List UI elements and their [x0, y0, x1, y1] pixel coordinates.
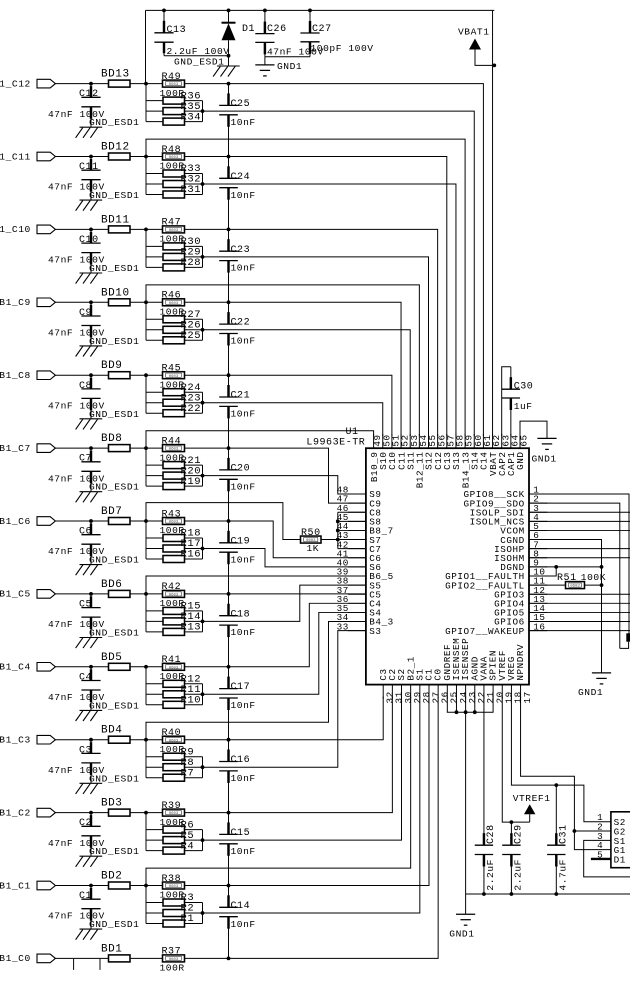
pin 1 GPIO8__SCK (right)	[464, 485, 548, 501]
svg-text:0603: 0603	[169, 156, 179, 160]
svg-text:C10: C10	[79, 235, 99, 246]
pin 22 AGND (bottom)	[469, 656, 487, 703]
wire S6 net (block6 bank to left pin40)	[203, 549, 366, 567]
svg-text:C21: C21	[231, 391, 251, 402]
svg-text:B1_C3: B1_C3	[0, 735, 31, 746]
pin 47 C9 (left)	[337, 494, 382, 510]
wire bank output vertical (block 10)	[201, 246, 205, 267]
wire bead to resistor R46	[130, 300, 163, 304]
wire B1_C7 input	[56, 447, 109, 449]
wire bead to resistor R37	[130, 957, 163, 959]
resistor R8	[146, 764, 203, 771]
wire bank output vertical (block 7)	[201, 465, 205, 486]
wire bead to resistor R41	[130, 665, 163, 669]
wire B12_11 net (block9 junction to pin54)	[146, 285, 419, 436]
wire S3 net (block3 bank to left pin33)	[203, 631, 366, 768]
pin 51 C10 (top)	[387, 434, 401, 470]
pin 15 GPIO6 (right)	[494, 612, 547, 628]
svg-text:R42: R42	[162, 582, 182, 593]
svg-text:BD5: BD5	[101, 652, 122, 664]
wire GPIO8__SCK net	[529, 494, 629, 637]
pin 23 ISENSEP (bottom)	[460, 638, 478, 704]
ground GND_ESD1 (block 5)	[76, 628, 140, 649]
wire C13/D1 to ESD ground	[164, 54, 230, 58]
pin 63 CAP2 (top)	[497, 434, 511, 476]
svg-text:1K: 1K	[307, 543, 320, 554]
svg-text:GND: GND	[515, 452, 526, 470]
svg-text:1uF: 1uF	[514, 401, 533, 412]
svg-text:C25: C25	[231, 99, 251, 110]
resistor R22	[146, 410, 203, 417]
svg-text:100pF 100V: 100pF 100V	[311, 43, 374, 54]
svg-text:R46: R46	[162, 291, 182, 302]
ferrite bead BD11	[101, 214, 130, 233]
capacitor C8 47nF	[48, 373, 105, 418]
pin 9 DGND (right)	[500, 557, 547, 573]
svg-text:R48: R48	[162, 145, 182, 156]
wire S13 net (block11 bank to pin58)	[203, 184, 456, 436]
capacitor C30 1uF (CAP1-CAP2)	[502, 367, 534, 436]
svg-text:VBAT1: VBAT1	[458, 27, 490, 38]
wire bank feed vertical x=146 (block 8)	[145, 375, 147, 413]
capacitor C26 47nF	[255, 10, 323, 57]
svg-text:GND_ESD1: GND_ESD1	[89, 409, 139, 420]
svg-text:R37: R37	[162, 947, 182, 958]
wire bank output vertical (block 1)	[201, 903, 205, 924]
svg-text:BD4: BD4	[101, 725, 122, 737]
power flag VTREF1	[513, 793, 551, 822]
resistor R21	[146, 462, 203, 469]
wire bank feed vertical x=146 (block 7)	[145, 448, 147, 486]
svg-text:C29: C29	[514, 824, 525, 844]
pin 42 C7 (left)	[337, 539, 382, 555]
svg-text:33: 33	[337, 621, 349, 632]
svg-text:C30: C30	[514, 381, 534, 392]
svg-text:B1_C2: B1_C2	[0, 807, 31, 818]
svg-text:NPNDRV: NPNDRV	[515, 644, 526, 681]
svg-text:10nF: 10nF	[231, 263, 256, 274]
pin 12 GPIO3 (right)	[494, 585, 547, 601]
resistor R38 100R	[160, 874, 185, 901]
wire GPIO3 net	[529, 593, 630, 595]
svg-text:C11: C11	[79, 162, 99, 173]
svg-text:10nF: 10nF	[231, 336, 256, 347]
capacitor C19 10nF (between C6 and C5 nets)	[219, 521, 256, 594]
svg-text:C15: C15	[231, 828, 251, 839]
svg-text:C3: C3	[79, 745, 92, 756]
wire NPNDRV net to FET gates	[521, 697, 611, 850]
resistor R20	[146, 472, 203, 479]
capacitor C13 2.2uF	[154, 10, 229, 57]
ground GND1 (pin 65)	[532, 438, 557, 464]
resistor R43 100R	[160, 509, 185, 536]
resistor R46 100R	[160, 291, 185, 318]
wire bank feed vertical x=146 (block 10)	[145, 229, 147, 267]
resistor R40 100R	[160, 728, 185, 755]
svg-text:C19: C19	[231, 536, 251, 547]
svg-text:B1_C4: B1_C4	[0, 662, 31, 673]
resistor R39 100R	[160, 801, 185, 828]
svg-text:GND_ESD1: GND_ESD1	[89, 773, 139, 784]
resistor R7	[146, 774, 203, 781]
svg-text:GND_ESD1: GND_ESD1	[89, 555, 139, 566]
resistor R42 100R	[160, 582, 185, 609]
wire S1 net (block1 bank to bottom pin28)	[203, 697, 420, 913]
pin 50 S10 (top)	[378, 434, 392, 470]
pin 40 S6 (left)	[337, 557, 382, 573]
svg-text:17: 17	[522, 691, 533, 703]
resistor R51 100K	[557, 572, 606, 589]
wire D1 drain stub	[591, 858, 611, 860]
connector B1_C3	[0, 735, 55, 746]
svg-text:R43: R43	[162, 509, 182, 520]
ground GND_ESD1 (block 1)	[76, 919, 140, 940]
ground GND_ESD1 (block 6)	[76, 555, 140, 576]
svg-text:C13: C13	[167, 25, 187, 36]
svg-text:R47: R47	[162, 218, 182, 229]
wire B1_C8 input	[56, 374, 109, 376]
ferrite bead BD6	[101, 579, 130, 598]
pin 20 SPIEN (bottom)	[488, 650, 506, 704]
svg-text:B1_C10: B1_C10	[0, 224, 31, 235]
pin 14 GPIO5 (right)	[494, 603, 547, 619]
pin 54 B12_11 (top)	[415, 434, 429, 488]
svg-text:BD10: BD10	[101, 287, 130, 299]
wire ground rail (bottom)	[466, 893, 630, 895]
wire bank output vertical (block 3)	[201, 757, 205, 778]
svg-text:R28: R28	[181, 257, 202, 269]
ferrite bead BD8	[101, 433, 130, 452]
wire R51 to CGND vertical	[585, 583, 604, 587]
svg-text:4.7uF: 4.7uF	[558, 859, 569, 891]
svg-text:C12: C12	[79, 89, 99, 100]
pin 18 VREG (bottom)	[506, 656, 524, 703]
resistor R25	[146, 337, 203, 344]
resistor R41 100R	[160, 655, 185, 682]
capacitor C20 10nF (between C7 and C6 nets)	[219, 448, 256, 521]
svg-text:B1_C7: B1_C7	[0, 443, 31, 454]
ground GND_ESD1 (top)	[174, 56, 240, 77]
pin 60 S14 (top)	[469, 434, 483, 470]
svg-text:U1: U1	[346, 427, 359, 438]
svg-text:0603: 0603	[169, 666, 179, 670]
labels bank resistors block 11	[181, 163, 202, 196]
capacitor C23 10nF (between C10 and C9 nets)	[219, 229, 256, 302]
svg-text:R1: R1	[181, 913, 195, 925]
resistor R48 100R	[160, 145, 185, 172]
svg-text:10nF: 10nF	[231, 554, 256, 565]
svg-text:S3: S3	[369, 626, 381, 637]
svg-text:10nF: 10nF	[231, 773, 256, 784]
wire R50 feed from block6 junction	[146, 503, 301, 540]
svg-text:C7: C7	[79, 454, 92, 465]
svg-text:C22: C22	[231, 318, 251, 329]
wire bank output vertical (block 4)	[201, 684, 205, 705]
svg-text:10nF: 10nF	[231, 409, 256, 420]
svg-text:R49: R49	[162, 72, 182, 83]
pin 21 VANA (bottom)	[479, 656, 497, 703]
wire bank feed vertical x=146 (block 3)	[145, 740, 147, 778]
labels bank resistors block 7	[181, 455, 202, 488]
wire bank output vertical (block 6)	[201, 538, 205, 559]
wire ISENSEP/AGND down to ground rail	[465, 712, 467, 894]
svg-text:0603: 0603	[169, 375, 179, 379]
pin 35 S4 (left)	[337, 603, 382, 619]
resistor R18	[146, 535, 203, 542]
svg-text:BD8: BD8	[101, 433, 122, 445]
pin 38 S5 (left)	[337, 576, 382, 592]
wire B6_5 net (block5 junction to left pin39)	[146, 576, 366, 594]
pin 31 C2 (bottom)	[387, 668, 405, 703]
connector B1_C0	[0, 953, 55, 964]
svg-text:GND1: GND1	[277, 61, 302, 72]
pin 29 B2_1 (bottom)	[405, 656, 423, 703]
resistor R35	[146, 108, 203, 115]
svg-text:C9: C9	[79, 308, 92, 319]
svg-text:0603: 0603	[169, 448, 179, 452]
wire bead to resistor R39	[130, 811, 163, 815]
resistor R3	[146, 899, 203, 906]
svg-text:BD12: BD12	[101, 142, 130, 154]
wire S1 source route	[584, 840, 630, 877]
svg-text:R10: R10	[181, 695, 202, 707]
ferrite bead BD10	[101, 287, 130, 306]
capacitor C11 47nF	[48, 155, 105, 201]
wire bank output vertical (block 5)	[201, 611, 205, 632]
svg-text:BD9: BD9	[101, 360, 122, 372]
pin 8 ISOHM (right)	[494, 548, 547, 564]
pin 59 B14_13 (top)	[460, 434, 474, 488]
svg-text:0603: 0603	[169, 229, 179, 233]
svg-text:C28: C28	[486, 824, 497, 844]
pin 5 VCOM (right)	[500, 521, 547, 537]
svg-text:GND_ESD1: GND_ESD1	[89, 700, 139, 711]
svg-text:2.2uF: 2.2uF	[513, 859, 524, 891]
svg-text:10nF: 10nF	[231, 919, 256, 930]
wire B10_9 net (block7 junction to pin49)	[146, 431, 374, 448]
ferrite bead BD12	[101, 142, 130, 161]
wire GPIO2__FAULTL to R51	[529, 584, 566, 586]
svg-text:0603: 0603	[570, 585, 580, 589]
wire bank output vertical (block 2)	[201, 830, 205, 851]
ferrite bead BD13	[101, 69, 130, 88]
resistor R36	[146, 97, 203, 104]
svg-text:BD2: BD2	[101, 871, 122, 883]
pin 37 C5 (left)	[337, 585, 382, 601]
svg-text:R13: R13	[181, 622, 202, 634]
ferrite bead BD9	[101, 360, 130, 379]
resistor R6	[146, 826, 203, 833]
pin 62 VBAT (top)	[488, 434, 502, 476]
resistor R31	[146, 191, 203, 198]
capacitor C21 10nF (between C8 and C7 nets)	[219, 375, 256, 448]
wire C10 net (block8 to pin51)	[185, 373, 392, 436]
wire bank feed vertical x=146 (block 9)	[145, 302, 147, 340]
pin 28 S1 (bottom)	[414, 668, 432, 703]
resistor R27	[146, 316, 203, 323]
svg-text:0603: 0603	[169, 594, 179, 598]
connector B1_C2	[0, 807, 55, 818]
connector B1_C5	[0, 589, 55, 600]
connector B1_C12	[0, 78, 55, 89]
svg-text:0603: 0603	[169, 958, 179, 962]
svg-text:B1_C12: B1_C12	[0, 78, 31, 89]
pin 4 ISOLM_NCS (right)	[470, 512, 548, 528]
resistor R30	[146, 243, 203, 250]
wire VBAT top rail	[146, 9, 495, 84]
pin 25 GNDREF (bottom)	[442, 644, 460, 704]
pin 58 S13 (top)	[451, 434, 465, 470]
svg-text:GND_ESD1: GND_ESD1	[89, 336, 139, 347]
wire CGND net to GND1	[529, 540, 602, 673]
resistor R9	[146, 753, 203, 760]
svg-text:C8: C8	[79, 381, 92, 392]
wire C26/C27 bottom	[265, 56, 310, 58]
resistor R15	[146, 607, 203, 614]
diode D1	[222, 10, 256, 55]
wire B4_3 net (block3 junction to left pin34)	[146, 622, 366, 740]
stubs on B1_C0 wire	[74, 959, 100, 970]
wire B1_C2 input	[56, 812, 109, 814]
svg-text:10nF: 10nF	[231, 190, 256, 201]
wire bead to resistor R44	[130, 446, 163, 450]
wire bead to resistor R40	[130, 738, 163, 742]
svg-text:GND_ESD1: GND_ESD1	[89, 919, 139, 930]
wire B1_C0 input	[56, 957, 109, 959]
capacitor C16 10nF (between C3 and C2 nets)	[219, 740, 256, 813]
svg-text:C5: C5	[79, 600, 92, 611]
resistor R47 100R	[160, 218, 185, 245]
svg-text:0603: 0603	[169, 83, 179, 87]
svg-text:L9963E-TR: L9963E-TR	[306, 437, 365, 448]
wire bank feed vertical x=146 (block 11)	[145, 157, 147, 195]
wire bank feed vertical x=146 (block 2)	[145, 813, 147, 851]
svg-text:C16: C16	[231, 755, 251, 766]
wire C12 net (block10 to pin56)	[185, 228, 438, 437]
pin 65 GND (top)	[515, 434, 529, 470]
capacitor C7 47nF	[48, 446, 105, 492]
pin 44 B8_7 (left)	[337, 521, 394, 537]
capacitor C12 47nF	[48, 82, 105, 128]
wire bead to resistor R43	[130, 519, 163, 523]
capacitor C9 47nF	[48, 300, 105, 346]
svg-text:B1_C6: B1_C6	[0, 516, 31, 527]
wire bead to resistor R48	[130, 155, 163, 159]
svg-text:100R: 100R	[160, 963, 185, 974]
svg-text:C6: C6	[79, 527, 92, 538]
power flag VBAT1	[458, 27, 496, 68]
capacitor C15 10nF (between C2 and C1 nets)	[219, 813, 256, 886]
pin 33 S3 (left)	[337, 621, 382, 637]
wire ISOLM_NCS net	[529, 520, 630, 522]
wire GPIO1__FAULTH tie to DGND	[529, 565, 558, 576]
wire VREG net to FET S2	[511, 697, 610, 822]
svg-text:BD3: BD3	[101, 798, 122, 810]
ground GND_ESD1 (block 8)	[76, 409, 140, 430]
pin 6 CGND (right)	[500, 530, 547, 546]
svg-text:C27: C27	[312, 24, 332, 35]
wire C2 net (block2 to bottom pin31)	[185, 697, 393, 815]
pin 2 GPIO9__SDO (right)	[464, 494, 548, 510]
ground GND1 (bottom rail)	[449, 894, 475, 940]
svg-text:0603: 0603	[169, 302, 179, 306]
wire bank feed vertical x=146 (block 12)	[145, 84, 147, 122]
capacitor C22 10nF (between C9 and C8 nets)	[219, 302, 256, 375]
wire GPIO5 net	[529, 611, 630, 613]
ground GND_ESD1 (block 9)	[76, 336, 140, 357]
labels bank resistors block 6	[181, 528, 202, 561]
resistor R4	[146, 847, 203, 854]
ground GND1 (top filter)	[255, 57, 302, 76]
svg-text:D1: D1	[614, 854, 626, 865]
pin 53 S11 (top)	[405, 434, 419, 470]
pin 24 ISENSEM (bottom)	[451, 638, 469, 704]
svg-text:B1_C0: B1_C0	[0, 953, 31, 964]
svg-text:10nF: 10nF	[231, 627, 256, 638]
resistor R28	[146, 264, 203, 271]
capacitor C18 10nF (between C5 and C4 nets)	[219, 594, 256, 667]
svg-text:R44: R44	[162, 436, 182, 447]
resistor R37 100R	[160, 947, 185, 974]
wire bead to resistor R45	[130, 373, 163, 377]
pin 61 C14 (top)	[479, 434, 493, 470]
capacitor C4 47nF	[48, 665, 105, 711]
svg-text:GND1: GND1	[449, 929, 474, 940]
wire C11 net (block9 to pin52)	[185, 300, 402, 436]
svg-text:GND_ESD1: GND_ESD1	[174, 57, 224, 68]
wire S4 net (block4 bank to left pin35)	[203, 612, 366, 694]
wire S11 net (block9 bank to pin53)	[203, 330, 411, 436]
ground GND_ESD1 (block 11)	[76, 190, 140, 211]
capacitor C17 10nF (between C4 and C3 nets)	[219, 667, 256, 740]
svg-text:GND1: GND1	[578, 687, 603, 698]
pin 48 S9 (left)	[337, 485, 382, 501]
wire DGND net	[529, 565, 603, 569]
svg-text:C2: C2	[79, 818, 92, 829]
resistor R26	[146, 326, 203, 333]
labels bank resistors block 8	[181, 382, 202, 415]
resistor R11	[146, 691, 203, 698]
connector B1_C11	[0, 151, 55, 162]
svg-text:R41: R41	[162, 655, 182, 666]
pin 7 ISOHP (right)	[494, 539, 547, 555]
pin 16 GPIO7__WAKEUP (right)	[445, 621, 547, 637]
labels bank resistors block 4	[181, 674, 202, 707]
wire S12 net (block10 bank to pin55)	[203, 257, 429, 436]
svg-text:R19: R19	[181, 476, 202, 488]
svg-text:0603: 0603	[169, 521, 179, 525]
svg-text:BD1: BD1	[101, 943, 122, 955]
svg-text:C4: C4	[79, 672, 92, 683]
capacitor C31 4.7uF	[547, 785, 569, 896]
wire bead to resistor R42	[130, 592, 163, 596]
capacitor C1 47nF	[48, 884, 105, 930]
capacitor C28 2.2uF	[475, 824, 497, 896]
pin 57 C13 (top)	[442, 434, 456, 470]
resistor R12	[146, 680, 203, 687]
resistor R49 100R	[160, 72, 185, 99]
wire bank output vertical (block 12)	[201, 101, 205, 122]
pin 3 ISOLP_SDI (right)	[470, 503, 548, 519]
svg-text:100K: 100K	[581, 572, 606, 583]
ferrite bead BD7	[101, 506, 130, 525]
wire S2 net (block2 bank to bottom pin30)	[203, 697, 402, 841]
wire GPIO6 net	[529, 621, 630, 623]
ground GND_ESD1 (block 7)	[76, 482, 140, 503]
connector B1_C4	[0, 662, 55, 673]
ferrite bead BD5	[101, 652, 130, 671]
resistor R44 100R	[160, 436, 185, 463]
